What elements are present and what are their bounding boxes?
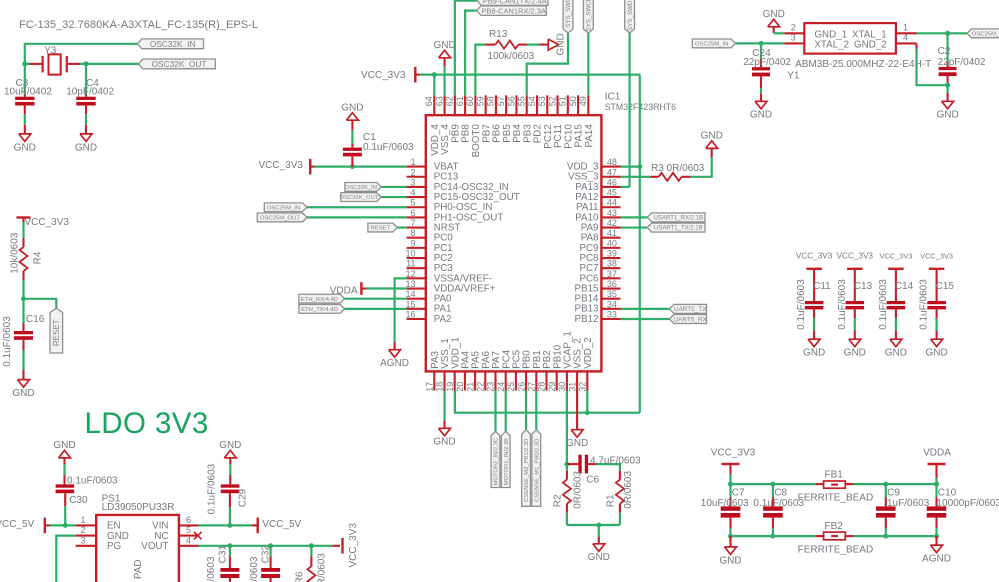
svg-text:43: 43 — [607, 208, 617, 218]
svg-text:ETH_TX/4.4D: ETH_TX/4.4D — [301, 307, 338, 313]
svg-text:21: 21 — [465, 382, 475, 392]
svg-text:R1: R1 — [606, 494, 617, 507]
svg-text:4: 4 — [410, 188, 415, 198]
svg-text:VDDA: VDDA — [923, 448, 951, 459]
svg-text:GND: GND — [14, 142, 36, 153]
svg-text:USART1_RX/2.1B: USART1_RX/2.1B — [654, 216, 703, 222]
svg-text:2: 2 — [791, 22, 796, 32]
svg-text:GND: GND — [885, 348, 907, 359]
svg-text:9: 9 — [410, 238, 415, 248]
svg-text:GND: GND — [12, 388, 34, 399]
svg-text:53: 53 — [537, 96, 547, 106]
svg-text:GND: GND — [219, 440, 241, 451]
svg-text:2: 2 — [410, 167, 415, 177]
svg-text:GND: GND — [936, 110, 958, 121]
svg-text:CSENSE_M1_PB0/2.3D: CSENSE_M1_PB0/2.3D — [534, 439, 540, 502]
svg-text:R13: R13 — [489, 29, 508, 40]
svg-text:64: 64 — [424, 96, 434, 106]
svg-text:PB12: PB12 — [575, 314, 599, 325]
svg-text:10k/0603: 10k/0603 — [10, 232, 21, 274]
svg-text:VCC_5V: VCC_5V — [262, 519, 301, 530]
svg-text:3: 3 — [791, 33, 796, 43]
svg-text:2: 2 — [81, 525, 86, 535]
svg-text:1uF/0603: 1uF/0603 — [887, 498, 930, 509]
svg-text:8: 8 — [410, 228, 415, 238]
svg-text:FB1: FB1 — [825, 470, 844, 481]
svg-text:SYS_SWCLK: SYS_SWCLK — [586, 0, 593, 31]
svg-text:40: 40 — [607, 238, 617, 248]
svg-text:PAD: PAD — [133, 560, 144, 579]
svg-text:1: 1 — [81, 515, 86, 525]
svg-text:OSC25M_OUT: OSC25M_OUT — [972, 31, 999, 37]
svg-text:46: 46 — [607, 177, 617, 187]
svg-text:FB2: FB2 — [825, 521, 844, 532]
svg-text:48: 48 — [607, 157, 617, 167]
svg-text:VCC_5V: VCC_5V — [0, 519, 35, 530]
svg-text:VCC_3V3: VCC_3V3 — [25, 217, 70, 228]
svg-text:GND: GND — [555, 33, 566, 55]
svg-text:FERRITE_BEAD: FERRITE_BEAD — [798, 545, 874, 556]
svg-text:RESET: RESET — [371, 226, 391, 232]
svg-text:SYS_SWO: SYS_SWO — [565, 0, 572, 28]
svg-text:C32: C32 — [260, 545, 271, 564]
svg-text:VCC_3V3: VCC_3V3 — [711, 448, 756, 459]
svg-text:R2: R2 — [553, 494, 564, 507]
svg-text:C2: C2 — [938, 46, 951, 57]
svg-text:0.1uF/0603: 0.1uF/0603 — [878, 279, 889, 330]
svg-text:ETH_RX/4.4D: ETH_RX/4.4D — [301, 297, 338, 303]
svg-text:C30: C30 — [69, 495, 88, 506]
svg-text:42: 42 — [607, 218, 617, 228]
svg-text:VCC_3V3: VCC_3V3 — [879, 252, 912, 261]
svg-text:52: 52 — [547, 96, 557, 106]
svg-text:0.1uF/0603: 0.1uF/0603 — [206, 463, 217, 514]
svg-text:C29: C29 — [238, 488, 249, 507]
svg-text:12: 12 — [405, 269, 415, 279]
svg-text:MOTOR1_IN/2.3B: MOTOR1_IN/2.3B — [504, 438, 510, 485]
svg-text:CSENSE_M2_PB1/2.3D: CSENSE_M2_PB1/2.3D — [524, 439, 530, 502]
svg-text:GND: GND — [566, 438, 588, 449]
svg-text:OSC32K_OUT: OSC32K_OUT — [152, 59, 207, 69]
svg-text:XTAL_2: XTAL_2 — [814, 40, 849, 51]
svg-text:39: 39 — [607, 249, 617, 259]
svg-text:34: 34 — [607, 299, 617, 309]
svg-text:UART5_TX: UART5_TX — [674, 306, 707, 313]
svg-text:1: 1 — [410, 157, 415, 167]
svg-text:51: 51 — [558, 96, 568, 106]
svg-text:61: 61 — [455, 96, 465, 106]
svg-text:100k/0603: 100k/0603 — [488, 51, 535, 62]
svg-text:10pF/0402: 10pF/0402 — [66, 87, 114, 98]
svg-text:54: 54 — [527, 96, 537, 106]
svg-text:RESET: RESET — [52, 319, 61, 346]
svg-text:PA2: PA2 — [434, 314, 452, 325]
svg-text:5: 5 — [186, 525, 191, 535]
svg-text:VDD_2: VDD_2 — [583, 337, 594, 369]
svg-text:C14: C14 — [895, 281, 914, 292]
svg-text:GND: GND — [763, 9, 785, 20]
svg-text:45: 45 — [607, 188, 617, 198]
svg-text:C16: C16 — [26, 314, 45, 325]
svg-text:3: 3 — [410, 177, 415, 187]
svg-text:GND: GND — [341, 103, 363, 114]
svg-text:44: 44 — [607, 198, 617, 208]
svg-text:GND: GND — [588, 552, 610, 563]
svg-text:22pF/0402: 22pF/0402 — [743, 57, 791, 68]
svg-text:ABM3B-25.000MHZ-22-E4H-T: ABM3B-25.000MHZ-22-E4H-T — [795, 59, 931, 70]
svg-text:26: 26 — [516, 382, 526, 392]
svg-text:10: 10 — [405, 249, 415, 259]
svg-text:VCC_3V3: VCC_3V3 — [348, 523, 359, 568]
svg-text:49: 49 — [578, 96, 588, 106]
svg-text:GND: GND — [433, 437, 455, 448]
svg-text:0R/0603: 0R/0603 — [317, 553, 328, 582]
svg-text:55: 55 — [517, 96, 527, 106]
svg-text:GND: GND — [701, 131, 723, 142]
svg-text:4.7uF/0603: 4.7uF/0603 — [590, 455, 641, 466]
svg-text:VCC_3V3: VCC_3V3 — [361, 70, 406, 81]
svg-text:R4: R4 — [33, 251, 44, 264]
svg-text:OSC25M_OUT: OSC25M_OUT — [260, 216, 300, 222]
svg-text:C6: C6 — [586, 474, 599, 485]
svg-text:AGND: AGND — [380, 358, 409, 369]
svg-text:OSC32K_IN: OSC32K_IN — [345, 185, 377, 191]
svg-text:4: 4 — [903, 33, 908, 43]
svg-text:VCC_3V3: VCC_3V3 — [920, 252, 953, 261]
svg-text:R3 0R/0603: R3 0R/0603 — [651, 163, 705, 174]
svg-text:4: 4 — [186, 535, 191, 545]
svg-text:20: 20 — [455, 382, 465, 392]
svg-text:6: 6 — [410, 208, 415, 218]
svg-text:57: 57 — [496, 96, 506, 106]
svg-text:0.1uF/0603: 0.1uF/0603 — [919, 279, 930, 330]
svg-text:AGND: AGND — [922, 554, 951, 565]
svg-text:GND: GND — [925, 348, 947, 359]
svg-text:LD39050PU33R: LD39050PU33R — [102, 502, 175, 513]
svg-text:17: 17 — [425, 382, 435, 392]
svg-text:3: 3 — [81, 535, 86, 545]
svg-text:GND: GND — [803, 348, 825, 359]
svg-text:30: 30 — [557, 382, 567, 392]
svg-text:C13: C13 — [854, 281, 873, 292]
svg-text:VCC_3V3: VCC_3V3 — [259, 160, 304, 171]
svg-text:7: 7 — [410, 218, 415, 228]
svg-text:PB9-CAN1TX/2.4A: PB9-CAN1TX/2.4A — [483, 0, 547, 5]
svg-text:63: 63 — [434, 96, 444, 106]
svg-text:37: 37 — [607, 269, 617, 279]
svg-text:0.1uF/0603: 0.1uF/0603 — [837, 279, 848, 330]
svg-text:OSC25M_IN: OSC25M_IN — [267, 205, 300, 211]
svg-text:GND: GND — [844, 348, 866, 359]
svg-text:0.1uF/0603: 0.1uF/0603 — [363, 142, 414, 153]
svg-text:60: 60 — [465, 96, 475, 106]
svg-text:36: 36 — [607, 279, 617, 289]
svg-text:FC-135_32.7680KA-A3XTAL_FC-135: FC-135_32.7680KA-A3XTAL_FC-135(R)_EPS-L — [19, 19, 258, 31]
svg-text:PA14: PA14 — [584, 124, 595, 148]
svg-text:56: 56 — [506, 96, 516, 106]
svg-text:GND: GND — [750, 110, 772, 121]
svg-text:FERRITE_BEAD: FERRITE_BEAD — [798, 493, 874, 504]
svg-text:R6: R6 — [295, 571, 306, 582]
svg-text:C31: C31 — [218, 545, 229, 564]
svg-text:MOTOR2_IN/2.3C: MOTOR2_IN/2.3C — [494, 438, 500, 486]
svg-text:23: 23 — [486, 382, 496, 392]
svg-text:0.1uF/0603: 0.1uF/0603 — [206, 556, 217, 582]
svg-text:22: 22 — [476, 382, 486, 392]
svg-text:0.1uF/0603: 0.1uF/0603 — [249, 556, 260, 582]
svg-text:GND_2: GND_2 — [854, 40, 887, 51]
svg-text:C11: C11 — [813, 281, 831, 292]
svg-text:PG: PG — [107, 541, 121, 552]
svg-text:16: 16 — [405, 310, 415, 320]
svg-text:31: 31 — [567, 382, 577, 392]
svg-text:OSC32K_IN: OSC32K_IN — [150, 39, 196, 49]
svg-text:10uF/0402: 10uF/0402 — [4, 87, 52, 98]
svg-text:0R/0603: 0R/0603 — [572, 471, 583, 509]
svg-text:58: 58 — [486, 96, 496, 106]
svg-text:11: 11 — [406, 259, 415, 269]
svg-text:C15: C15 — [936, 281, 955, 292]
svg-text:VOUT: VOUT — [141, 541, 168, 552]
svg-text:29: 29 — [547, 382, 557, 392]
svg-text:1: 1 — [903, 22, 908, 32]
svg-text:PB8-CAN1RX/2.3A: PB8-CAN1RX/2.3A — [481, 6, 546, 15]
svg-text:SYS_SWDIO: SYS_SWDIO — [627, 0, 634, 31]
svg-text:32: 32 — [578, 382, 588, 392]
svg-text:USART1_TX/2.1B: USART1_TX/2.1B — [654, 226, 703, 232]
svg-text:38: 38 — [607, 259, 617, 269]
svg-text:OSC25M_IN: OSC25M_IN — [695, 42, 728, 48]
svg-text:25: 25 — [506, 382, 516, 392]
svg-text:22pF/0402: 22pF/0402 — [938, 57, 986, 68]
svg-text:27: 27 — [527, 382, 537, 392]
svg-text:19: 19 — [445, 382, 455, 392]
svg-text:VCC_3V3: VCC_3V3 — [837, 252, 874, 261]
svg-text:0.1uF/0603: 0.1uF/0603 — [2, 316, 13, 367]
svg-text:VCC_3V3: VCC_3V3 — [796, 252, 833, 261]
svg-text:UART5_RX: UART5_RX — [674, 316, 708, 323]
svg-text:0.1uF/0603: 0.1uF/0603 — [753, 498, 804, 509]
svg-text:35: 35 — [607, 289, 617, 299]
svg-text:GND: GND — [719, 555, 741, 566]
svg-text:Y1: Y1 — [787, 71, 800, 82]
svg-text:0.1uF/0603: 0.1uF/0603 — [67, 476, 118, 487]
svg-text:50: 50 — [568, 96, 578, 106]
svg-text:OSC32K_OUT: OSC32K_OUT — [339, 195, 378, 201]
svg-text:0.1uF/0603: 0.1uF/0603 — [796, 279, 807, 330]
svg-text:47: 47 — [607, 167, 617, 177]
svg-text:GND: GND — [53, 440, 75, 451]
svg-text:15: 15 — [405, 299, 415, 309]
svg-text:5: 5 — [410, 198, 415, 208]
svg-text:0R/0603: 0R/0603 — [623, 471, 634, 509]
svg-text:24: 24 — [496, 382, 506, 392]
svg-text:10uF/0603: 10uF/0603 — [701, 498, 749, 509]
svg-text:13: 13 — [405, 279, 415, 289]
svg-text:62: 62 — [445, 96, 455, 106]
svg-text:6: 6 — [186, 515, 191, 525]
svg-text:LDO 3V3: LDO 3V3 — [85, 407, 209, 440]
svg-text:GND: GND — [75, 142, 97, 153]
svg-text:GND: GND — [433, 40, 455, 51]
svg-text:14: 14 — [405, 289, 415, 299]
svg-text:10000pF/0603: 10000pF/0603 — [937, 498, 999, 509]
svg-text:28: 28 — [537, 382, 547, 392]
svg-text:18: 18 — [435, 382, 445, 392]
svg-text:33: 33 — [607, 310, 617, 320]
svg-text:59: 59 — [475, 96, 485, 106]
svg-text:41: 41 — [607, 228, 617, 238]
